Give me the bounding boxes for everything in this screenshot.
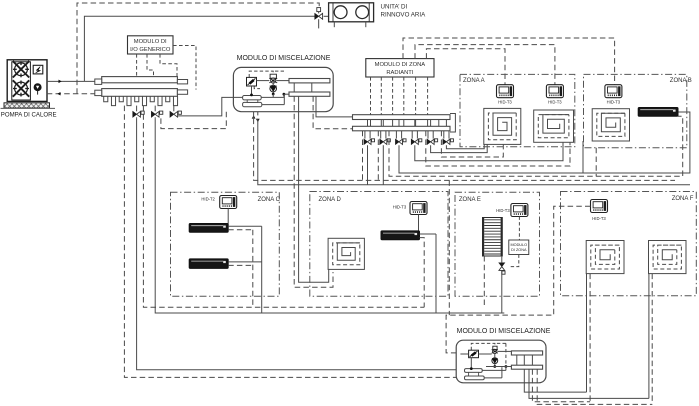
zone D fancoil pipes <box>420 233 437 235</box>
mixing module 2 three-way valve <box>469 350 479 358</box>
heat pump circulation pump <box>34 84 41 91</box>
feed zone A coil2 supply <box>415 142 563 160</box>
feed zone B return dashed <box>389 116 683 176</box>
air renewal unit connection <box>324 15 329 17</box>
zone C thermostat link <box>227 209 229 224</box>
mixing module 1 control dashes <box>249 71 273 77</box>
svg-text:POMPA DI CALORE: POMPA DI CALORE <box>1 112 57 119</box>
zone D fan coil <box>381 231 420 240</box>
mixing module 2 header connector <box>469 372 479 376</box>
feed zone B supply solid <box>399 112 690 173</box>
mixing module 2 pump valve <box>492 350 498 354</box>
svg-text:HID-T3: HID-T3 <box>496 208 510 213</box>
zone F coil2 return dashed <box>651 274 653 405</box>
drop pair1 return dashed to mixing module 2 <box>124 106 456 378</box>
manifold valve V3 <box>170 111 181 117</box>
zone E towel radiator <box>483 218 503 257</box>
air renewal unit motorized valve <box>315 13 319 19</box>
zone E radiator valve <box>499 263 505 274</box>
feed zone A coil1 supply <box>446 144 484 148</box>
valve3 supply elbow to mixing module 1 <box>178 97 243 116</box>
mixing module 1 manifold ticks <box>293 83 295 92</box>
mixing module 1 header bar B <box>243 102 262 106</box>
I/O module control drop 3 (dashed) <box>160 54 177 77</box>
mixing module 2 pump links <box>494 353 496 358</box>
zone A boundary <box>460 74 575 146</box>
module1 to radiant manifold supply <box>316 96 353 117</box>
zone E module to valve <box>509 255 519 267</box>
supply pipe heat pump to manifold <box>47 80 95 82</box>
svg-text:ZONA F: ZONA F <box>672 196 694 202</box>
feed zone A coil1 return dashed <box>441 131 503 157</box>
svg-text:MODULO DI MISCELAZIONE: MODULO DI MISCELAZIONE <box>237 55 331 62</box>
zone F thermostat <box>591 200 608 213</box>
svg-text:MODULO: MODULO <box>510 243 527 247</box>
mixing module 1 junction dots <box>250 94 253 97</box>
I/O module control drop 4 (dashed) <box>173 46 196 90</box>
drop pair2 supply solid to fancoil line <box>155 119 504 313</box>
svg-text:ZONA A: ZONA A <box>463 78 485 84</box>
svg-text:I/O GENERICO: I/O GENERICO <box>130 47 171 53</box>
drop pair2 return dashed to fancoil line <box>143 106 424 308</box>
svg-text:MODULO DI ZONA: MODULO DI ZONA <box>375 62 426 68</box>
mixing module 2 manifold ticks <box>516 355 518 365</box>
zone C fan coil 1 <box>189 224 228 233</box>
svg-text:ZONA E: ZONA E <box>459 197 481 203</box>
zone A floor coil 2 <box>534 110 574 142</box>
zone F floor coil 1 <box>586 241 624 274</box>
zone D thermostat <box>410 202 427 215</box>
svg-text:HID-T3: HID-T3 <box>498 100 512 105</box>
module1 to zone D coil solid <box>299 96 329 282</box>
zone B floor coil <box>592 109 629 141</box>
zone C fancoil pipes <box>228 225 262 227</box>
control run to zone A thermostat 1 <box>426 49 505 85</box>
valve trunk joins <box>367 145 369 185</box>
zone D floor coil <box>328 238 364 269</box>
mixing module 1 three-way valve <box>247 77 257 86</box>
mixing module 1 flow arrows <box>252 115 256 118</box>
svg-text:DI ZONA: DI ZONA <box>511 248 527 252</box>
zone E boundary <box>455 192 540 296</box>
zone C risers <box>252 230 254 307</box>
module box MODULO DI I/O GENERICO <box>128 36 174 54</box>
svg-text:RADIANTI: RADIANTI <box>386 70 413 76</box>
mixing module 1 pump actuator <box>270 74 276 78</box>
zone B thermostat <box>605 85 622 98</box>
return pipe manifold to heat pump (dashed) <box>47 93 95 95</box>
riser dashed to air renewal valve <box>77 3 319 94</box>
mixing module 2 manifold bottom bar <box>511 365 542 369</box>
svg-text:UNITA’ DI: UNITA’ DI <box>381 3 408 10</box>
mixing module 2 manifold top bar <box>511 351 542 355</box>
mixing module 2 pump <box>492 358 498 363</box>
zone F boundary <box>561 192 697 296</box>
mixing module 1 long run solid <box>258 119 690 185</box>
mixing module 2 pump actuator <box>493 346 497 349</box>
zone E radiator return dashed <box>483 256 485 307</box>
zone F coil1 return dashed <box>589 274 591 402</box>
svg-text:MODULO DI MISCELAZIONE: MODULO DI MISCELAZIONE <box>457 328 551 335</box>
mixing module 1 long run dashed <box>254 119 675 181</box>
I/O module control drop 1 (dashed) <box>136 54 138 77</box>
svg-text:ZONA C: ZONA C <box>258 197 281 203</box>
zone E thermostat <box>511 204 528 217</box>
svg-text:RINNOVO ARIA: RINNOVO ARIA <box>381 12 427 19</box>
mixing module 1 pump drop <box>272 81 274 86</box>
mixing module 2 junction dots <box>470 367 473 370</box>
heat pump mounting base (hatched) <box>4 103 50 108</box>
feed zone A coil1 supply2 <box>431 144 488 152</box>
mixing module 2 header bar B <box>465 376 485 380</box>
mixing module 2 internal lines <box>482 369 506 371</box>
mixing module 2 control dashes <box>471 343 495 350</box>
I/O module control drop 2 (dashed) <box>147 54 154 77</box>
mixing module 2 enclosure <box>456 340 546 383</box>
zone B boundary <box>584 74 687 147</box>
control run to zone B thermostat <box>403 38 615 85</box>
zone D boundary <box>310 192 448 297</box>
zone D thermostat link <box>418 215 420 231</box>
feed zone A coil2 return dashed <box>426 131 570 166</box>
mixing module 1 manifold top bar <box>289 79 330 83</box>
mixing module 1 valve to pump line <box>257 80 270 82</box>
control riser between zone D and E <box>448 180 450 315</box>
radiant circuit valves <box>364 131 366 139</box>
module1 to zone D coil dashed <box>294 96 333 287</box>
air renewal unit (UNITA DI RINNOVO ARIA) <box>329 3 374 22</box>
mixing module 1 header connector <box>247 100 258 103</box>
zone B fan coil <box>638 108 678 117</box>
zone C boundary <box>171 192 280 296</box>
control run to zone A thermostat 2 <box>415 45 555 85</box>
zone F coil1 supply <box>586 274 588 393</box>
module box MODULO DI ZONA RADIANTI <box>366 59 434 77</box>
svg-text:HID-T3: HID-T3 <box>393 205 407 210</box>
zone A thermostat 2 <box>546 85 563 98</box>
zone F coil2 supply <box>648 274 650 399</box>
mixing module 2 valve lines <box>460 353 468 355</box>
svg-text:MODULO DI: MODULO DI <box>134 39 167 45</box>
zone A thermostat 1 <box>497 85 514 98</box>
mixing module1 return dashed elbow to manifold <box>161 112 226 129</box>
zone F floor coil 2 <box>649 241 687 274</box>
mixing module 2 header bar A <box>465 369 483 373</box>
mixing module 1 header bar A <box>243 96 262 100</box>
zone E module box MODULO DI ZONA <box>509 240 529 255</box>
mixing module 1 manifold bottom bar <box>289 92 330 96</box>
svg-text:HID-T3: HID-T3 <box>548 100 562 105</box>
manifold valve V1 <box>133 111 144 117</box>
module1 to radiant manifold return dashed <box>313 96 352 128</box>
mixing module 2 outputs <box>524 369 586 392</box>
svg-text:HID-T3: HID-T3 <box>592 216 606 221</box>
zone C thermostat <box>220 196 237 209</box>
svg-text:HID-T3: HID-T3 <box>607 100 621 105</box>
main distribution manifold <box>95 77 188 106</box>
radiant manifold ticks <box>367 120 369 127</box>
zone F thermostat control run <box>446 206 590 353</box>
svg-text:ZONA D: ZONA D <box>319 197 342 203</box>
zone C fan coil 2 <box>189 259 228 269</box>
heat pump unit (POMPA DI CALORE) with two fans and electric symbol <box>7 60 47 102</box>
zone E module link <box>518 217 520 241</box>
mixing module 1 enclosure <box>233 67 333 111</box>
radiant circuits manifold <box>353 115 451 120</box>
manifold valve V2 <box>151 111 162 117</box>
mixing module 1 internal lines <box>261 96 284 98</box>
svg-text:HID-T2: HID-T2 <box>201 197 215 202</box>
drop pair1 supply solid to mixing module 2 <box>137 119 457 370</box>
zone A floor coil 1 <box>484 108 521 144</box>
mixing module 1 pump valve <box>269 78 277 83</box>
mixing module 1 pump <box>270 86 277 92</box>
riser solid to air renewal unit <box>84 16 315 81</box>
svg-text:ZONA B: ZONA B <box>670 78 692 84</box>
radiant module drops to manifold valves <box>370 77 372 115</box>
